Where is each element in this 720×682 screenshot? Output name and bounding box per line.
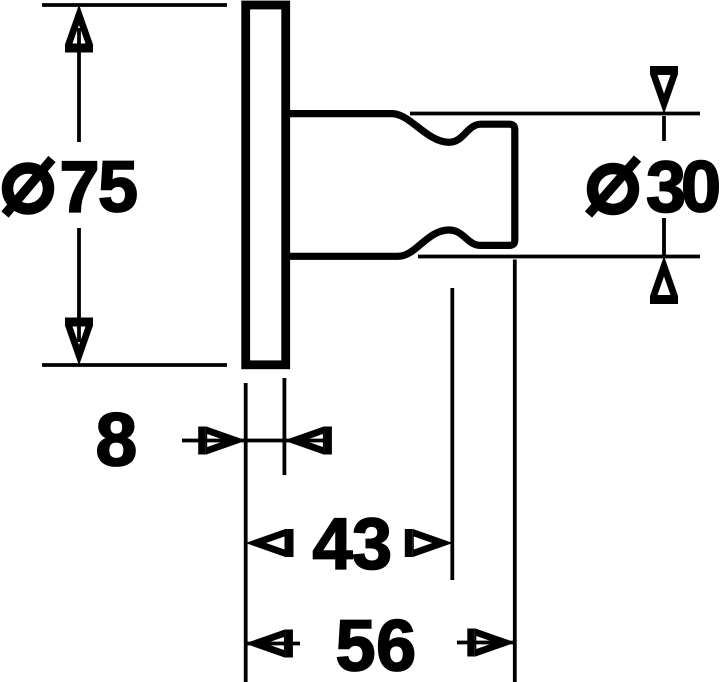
8 dim line (182, 439, 326, 443)
svg-text:43: 43 (313, 505, 392, 585)
arrow O30 top (down) (650, 66, 678, 114)
O75 dim line lower (77, 228, 81, 342)
O30 dim line upper (662, 116, 666, 141)
arrow 56 left (left) (245, 629, 293, 657)
O30 bottom extension (418, 255, 700, 259)
diameter symbol O75 (5, 159, 52, 215)
arrow 43 left (left) (246, 529, 294, 557)
43 right extension (450, 288, 454, 580)
svg-text:75: 75 (60, 148, 138, 228)
O75 top extension (42, 3, 227, 7)
svg-text:8: 8 (96, 398, 138, 482)
arrow O75 bottom (down) (65, 318, 93, 366)
arrow 8 right (left) (284, 426, 332, 454)
svg-text:56: 56 (336, 607, 417, 682)
arrow O75 top (up) (65, 5, 93, 53)
plate right extension down (282, 378, 286, 475)
svg-text:30: 30 (646, 148, 719, 228)
diameter symbol O30 (589, 159, 638, 215)
56 right extension (513, 260, 517, 682)
O75 bottom extension (42, 363, 227, 367)
wall plate (246, 5, 286, 365)
56 right tail (457, 641, 515, 645)
plate left extension down (244, 383, 248, 682)
arrow 8 left (right) (198, 426, 246, 454)
56 left tail (245, 642, 300, 646)
O75 dim line upper (77, 28, 81, 142)
arrow O30 bottom (up) (650, 256, 678, 304)
O30 dim line lower (662, 218, 666, 255)
holder body outline (284, 114, 515, 257)
arrow 56 right (right) (467, 628, 515, 656)
O30 top extension (410, 112, 700, 116)
arrow 43 right (right) (405, 529, 453, 557)
